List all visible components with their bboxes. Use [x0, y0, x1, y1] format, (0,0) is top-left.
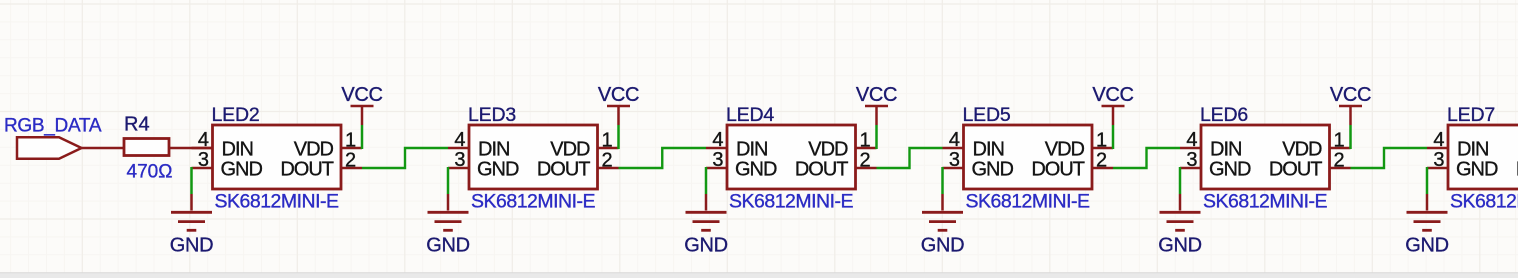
- svg-text:3: 3: [949, 149, 960, 171]
- svg-text:4: 4: [1186, 129, 1197, 151]
- pin name VDD of LED4: [808, 138, 848, 160]
- svg-text:VDD: VDD: [1045, 138, 1085, 160]
- label LED2: [212, 104, 260, 126]
- svg-text:LED3: LED3: [468, 104, 516, 126]
- svg-text:LED4: LED4: [726, 104, 774, 126]
- pin 3 (GND) of LED2: [192, 167, 213, 170]
- value SK6812MINI-E of LED6: [1203, 191, 1328, 213]
- svg-text:GND: GND: [426, 235, 470, 257]
- ground symbol below LED5: [922, 194, 963, 230]
- svg-text:GND: GND: [921, 235, 965, 257]
- svg-text:1: 1: [1096, 130, 1107, 152]
- label GND of LED2: [170, 235, 214, 257]
- pin number 1 of LED5: [1096, 130, 1107, 152]
- svg-text:LED6: LED6: [1200, 104, 1248, 126]
- value SK6812MINI-E of LED2: [215, 191, 340, 213]
- pin 1 (VDD) of LED6: [1330, 147, 1351, 150]
- value SK6812MINI-E of LED7: [1450, 191, 1518, 213]
- wire VCC to pin 1 of LED2: [361, 125, 364, 149]
- label VCC of LED3: [598, 84, 639, 106]
- pin 4 (DIN) of LED4: [706, 147, 727, 150]
- value SK6812MINI-E of LED4: [729, 191, 854, 213]
- ground symbol below LED6: [1160, 194, 1201, 230]
- ground symbol below LED2: [171, 194, 212, 230]
- svg-text:SK6812MINI-E: SK6812MINI-E: [1450, 191, 1518, 213]
- wire LED5 DOUT to LED6 DIN: [1113, 148, 1180, 168]
- svg-text:DOUT: DOUT: [1031, 158, 1084, 180]
- svg-text:DIN: DIN: [973, 138, 1004, 160]
- svg-text:GND: GND: [1456, 158, 1498, 180]
- svg-text:GND: GND: [735, 158, 777, 180]
- pin name GND of LED3: [477, 158, 519, 180]
- pin number 4 of LED5: [949, 129, 960, 151]
- svg-text:1: 1: [345, 130, 356, 152]
- svg-text:GND: GND: [1158, 235, 1202, 257]
- pin number 3 of LED5: [949, 149, 960, 171]
- pin number 3 of LED3: [454, 149, 465, 171]
- wire VCC to pin 1 of LED4: [875, 125, 878, 149]
- svg-text:1: 1: [860, 130, 871, 152]
- wire VCC to pin 1 of LED5: [1112, 125, 1115, 149]
- svg-text:SK6812MINI-E: SK6812MINI-E: [215, 191, 340, 213]
- ground symbol below LED3: [428, 194, 469, 230]
- IC LED3 (SK6812MINI-E) body: [469, 125, 598, 189]
- svg-text:GND: GND: [1209, 158, 1251, 180]
- svg-text:GND: GND: [684, 235, 728, 257]
- svg-text:3: 3: [454, 149, 465, 171]
- svg-text:2: 2: [1334, 150, 1345, 172]
- label LED4: [726, 104, 774, 126]
- pin name DOUT of LED2: [280, 158, 333, 180]
- pin name GND of LED6: [1209, 158, 1251, 180]
- svg-text:VCC: VCC: [1330, 84, 1371, 106]
- svg-text:3: 3: [198, 149, 209, 171]
- wire LED3 DOUT to LED4 DIN: [619, 148, 707, 168]
- IC LED7 (SK6812MINI-E) body: [1448, 125, 1518, 189]
- svg-text:1: 1: [602, 130, 613, 152]
- pin number 1 of LED6: [1334, 130, 1345, 152]
- pin 2 (DOUT) of LED2: [341, 167, 362, 170]
- svg-text:DOUT: DOUT: [280, 158, 333, 180]
- label LED6: [1200, 104, 1248, 126]
- IC LED4 (SK6812MINI-E) body: [727, 125, 856, 189]
- pin name DOUT of LED6: [1269, 158, 1322, 180]
- ground symbol below LED7: [1407, 194, 1448, 230]
- svg-text:RGB_DATA: RGB_DATA: [4, 116, 102, 137]
- pin 1 (VDD) of LED5: [1092, 147, 1113, 150]
- pin name VDD of LED2: [294, 138, 334, 160]
- pin number 2 of LED4: [860, 150, 871, 172]
- svg-text:DOUT: DOUT: [795, 158, 848, 180]
- svg-text:2: 2: [1096, 150, 1107, 172]
- pin 1 (VDD) of LED3: [598, 147, 619, 150]
- svg-text:4: 4: [1433, 129, 1444, 151]
- svg-text:VCC: VCC: [598, 84, 639, 106]
- label GND of LED5: [921, 235, 965, 257]
- svg-text:GND: GND: [477, 158, 519, 180]
- label R4: [124, 114, 150, 136]
- svg-text:SK6812MINI-E: SK6812MINI-E: [729, 191, 854, 213]
- pin number 2 of LED6: [1334, 150, 1345, 172]
- pin 1 (VDD) of LED4: [856, 147, 877, 150]
- pin name GND of LED5: [972, 158, 1014, 180]
- pin number 2 of LED2: [345, 150, 356, 172]
- svg-text:VDD: VDD: [294, 138, 334, 160]
- pin name DIN of LED6: [1210, 138, 1241, 160]
- pin name GND of LED2: [221, 158, 263, 180]
- svg-text:SK6812MINI-E: SK6812MINI-E: [1203, 191, 1328, 213]
- pin number 3 of LED2: [198, 149, 209, 171]
- pin name GND of LED7: [1456, 158, 1498, 180]
- wire RGB_DATA to R4: [82, 147, 125, 150]
- pin name DOUT of LED7: [1516, 158, 1518, 180]
- svg-text:SK6812MINI-E: SK6812MINI-E: [966, 191, 1091, 213]
- label GND of LED4: [684, 235, 728, 257]
- wire pin 3 of LED2 to ground: [190, 167, 193, 194]
- power symbol VCC above LED5: [1102, 106, 1125, 125]
- svg-text:2: 2: [860, 150, 871, 172]
- svg-text:2: 2: [345, 150, 356, 172]
- wire R4 to LED2 pin 4: [169, 147, 213, 150]
- svg-text:DOUT: DOUT: [537, 158, 590, 180]
- pin 3 (GND) of LED4: [706, 167, 727, 170]
- pin 4 (DIN) of LED6: [1180, 147, 1201, 150]
- pin number 2 of LED3: [602, 150, 613, 172]
- svg-text:1: 1: [1334, 130, 1345, 152]
- svg-text:4: 4: [949, 129, 960, 151]
- label LED7: [1447, 104, 1495, 126]
- label LED5: [963, 104, 1011, 126]
- svg-text:DIN: DIN: [736, 138, 767, 160]
- net flag RGB_DATA: [17, 137, 82, 159]
- label VCC of LED2: [341, 84, 382, 106]
- power symbol VCC above LED4: [865, 106, 888, 125]
- svg-text:3: 3: [1433, 149, 1444, 171]
- pin number 3 of LED7: [1433, 149, 1444, 171]
- svg-text:DIN: DIN: [478, 138, 509, 160]
- resistor R4: [124, 139, 169, 156]
- label VCC of LED6: [1330, 84, 1371, 106]
- label GND of LED6: [1158, 235, 1202, 257]
- wire LED2 DOUT to LED3 DIN: [362, 148, 448, 168]
- pin 4 (DIN) of LED2: [192, 147, 213, 150]
- pin 4 (DIN) of LED5: [943, 147, 964, 150]
- label GND of LED3: [426, 235, 470, 257]
- wire pin 3 of LED6 to ground: [1179, 167, 1182, 194]
- pin 3 (GND) of LED3: [448, 167, 469, 170]
- svg-text:470Ω: 470Ω: [127, 162, 173, 183]
- label VCC of LED5: [1092, 84, 1133, 106]
- pin number 4 of LED4: [712, 129, 723, 151]
- label VCC of LED4: [856, 84, 897, 106]
- net label RGB_DATA: [4, 116, 102, 137]
- pin name DIN of LED3: [478, 138, 509, 160]
- pin 4 (DIN) of LED3: [448, 147, 469, 150]
- pin name GND of LED4: [735, 158, 777, 180]
- svg-text:VCC: VCC: [1092, 84, 1133, 106]
- pin name DOUT of LED3: [537, 158, 590, 180]
- power symbol VCC above LED3: [607, 106, 630, 125]
- power symbol VCC above LED6: [1339, 106, 1362, 125]
- svg-text:GND: GND: [221, 158, 263, 180]
- pin number 1 of LED3: [602, 130, 613, 152]
- svg-text:GND: GND: [972, 158, 1014, 180]
- svg-text:DIN: DIN: [222, 138, 253, 160]
- pin 3 (GND) of LED5: [943, 167, 964, 170]
- svg-text:SK6812MINI-E: SK6812MINI-E: [471, 191, 596, 213]
- pin 2 (DOUT) of LED4: [856, 167, 877, 170]
- svg-text:3: 3: [1186, 149, 1197, 171]
- pin number 2 of LED5: [1096, 150, 1107, 172]
- pin name DIN of LED7: [1457, 138, 1488, 160]
- pin number 1 of LED4: [860, 130, 871, 152]
- svg-text:R4: R4: [124, 114, 150, 136]
- pin name VDD of LED3: [550, 138, 590, 160]
- pin 1 (VDD) of LED2: [341, 147, 362, 150]
- pin number 3 of LED4: [712, 149, 723, 171]
- pin 2 (DOUT) of LED5: [1092, 167, 1113, 170]
- pin 3 (GND) of LED7: [1427, 167, 1448, 170]
- wire pin 3 of LED7 to ground: [1426, 167, 1429, 194]
- svg-text:4: 4: [454, 129, 465, 151]
- pin 4 (DIN) of LED7: [1427, 147, 1448, 150]
- wire LED4 DOUT to LED5 DIN: [877, 148, 943, 168]
- IC LED2 (SK6812MINI-E) body: [213, 125, 342, 189]
- IC LED5 (SK6812MINI-E) body: [964, 125, 1093, 189]
- pin number 4 of LED6: [1186, 129, 1197, 151]
- pin 2 (DOUT) of LED6: [1330, 167, 1351, 170]
- pin number 4 of LED7: [1433, 129, 1444, 151]
- wire VCC to pin 1 of LED3: [617, 125, 620, 149]
- svg-text:DIN: DIN: [1457, 138, 1488, 160]
- wire LED6 DOUT to LED7 DIN: [1351, 148, 1428, 168]
- svg-text:LED2: LED2: [212, 104, 260, 126]
- pin 2 (DOUT) of LED3: [598, 167, 619, 170]
- pin 3 (GND) of LED6: [1180, 167, 1201, 170]
- svg-text:VDD: VDD: [808, 138, 848, 160]
- label GND of LED7: [1405, 235, 1449, 257]
- svg-text:4: 4: [198, 129, 209, 151]
- pin number 4 of LED2: [198, 129, 209, 151]
- value 470&#937;: [127, 162, 173, 183]
- pin name VDD of LED5: [1045, 138, 1085, 160]
- pin name DIN of LED5: [973, 138, 1004, 160]
- svg-text:DIN: DIN: [1210, 138, 1241, 160]
- pin name DOUT of LED5: [1031, 158, 1084, 180]
- pin name DIN of LED4: [736, 138, 767, 160]
- IC LED6 (SK6812MINI-E) body: [1201, 125, 1330, 189]
- svg-text:DOUT: DOUT: [1269, 158, 1322, 180]
- svg-text:VDD: VDD: [550, 138, 590, 160]
- wire pin 3 of LED3 to ground: [447, 167, 450, 194]
- pin number 1 of LED2: [345, 130, 356, 152]
- ground symbol below LED4: [686, 194, 727, 230]
- wire pin 3 of LED4 to ground: [705, 167, 708, 194]
- pin name DOUT of LED4: [795, 158, 848, 180]
- svg-text:VCC: VCC: [856, 84, 897, 106]
- wire pin 3 of LED5 to ground: [941, 167, 944, 194]
- value SK6812MINI-E of LED5: [966, 191, 1091, 213]
- svg-text:VDD: VDD: [1282, 138, 1322, 160]
- svg-text:GND: GND: [1405, 235, 1449, 257]
- pin number 3 of LED6: [1186, 149, 1197, 171]
- pin number 4 of LED3: [454, 129, 465, 151]
- value SK6812MINI-E of LED3: [471, 191, 596, 213]
- label LED3: [468, 104, 516, 126]
- svg-text:VCC: VCC: [341, 84, 382, 106]
- svg-text:4: 4: [712, 129, 723, 151]
- svg-text:2: 2: [602, 150, 613, 172]
- svg-text:LED7: LED7: [1447, 104, 1495, 126]
- pin name DIN of LED2: [222, 138, 253, 160]
- power symbol VCC above LED2: [351, 106, 374, 125]
- pin name VDD of LED6: [1282, 138, 1322, 160]
- svg-text:GND: GND: [170, 235, 214, 257]
- svg-text:LED5: LED5: [963, 104, 1011, 126]
- wire VCC to pin 1 of LED6: [1349, 125, 1352, 149]
- svg-text:3: 3: [712, 149, 723, 171]
